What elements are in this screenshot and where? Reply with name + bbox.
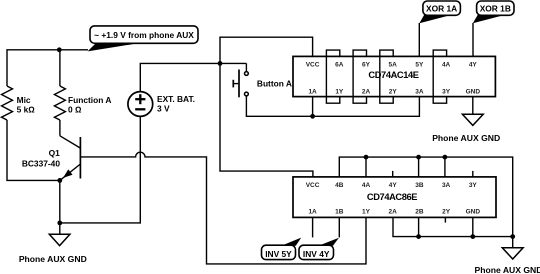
wire GND drop of CD74AC14E [472,97,474,115]
callout INV 5Y [262,238,302,260]
wire loop 6Y-2A [353,50,366,103]
node GND on lower bus [470,234,475,239]
svg-text:1A: 1A [308,208,317,215]
wire loop 4A-3Y [433,50,446,103]
node junction top-left at Function A [57,47,62,52]
svg-text:4A: 4A [362,182,371,189]
wire loop 6A-1Y [326,50,339,103]
svg-text:INV 5Y: INV 5Y [265,249,292,259]
wire loop 5A-2Y [380,50,393,103]
svg-text:1A: 1A [308,89,317,96]
svg-text:1B: 1B [335,208,344,215]
svg-text:~ +1.9 V from phone AUX: ~ +1.9 V from phone AUX [94,30,194,40]
wire GND drop of CD74AC86E [472,217,474,236]
wire 3A riser [444,157,446,177]
transistor Q1 BC337-40 [60,136,81,180]
wire Function A bottom to Q1 collector [59,120,61,136]
ground phone AUX GND left [49,234,70,245]
svg-text:0 Ω: 0 Ω [68,104,82,114]
node VCC branch on button rail [218,61,223,66]
svg-text:1Y: 1Y [362,208,371,215]
svg-text:4Y: 4Y [469,62,478,69]
pushbutton Button A [233,63,248,97]
wire battery top to button rail [140,63,246,91]
node 3A [443,155,448,160]
wire XOR 1A to pin 5Y [418,23,420,57]
op-amp U1 CD74AC14E body [293,56,495,96]
svg-text:INV 4Y: INV 4Y [303,249,330,259]
wire VCC riser to top rail [220,37,313,63]
resistor Function A zigzag [54,86,65,120]
wire button bottom bus to 1A and 3A [246,96,419,116]
wire battery bottom return to ground [60,116,141,222]
callout XOR 1B [473,1,514,23]
wire top-left horizontal net from phone AUX [7,50,88,86]
wire 1A drop to INV 5Y [312,217,314,237]
svg-text:Q1: Q1 [49,148,61,158]
svg-text:VCC: VCC [306,182,320,189]
svg-text:5A: 5A [389,62,398,69]
svg-text:5Y: 5Y [415,62,424,69]
node 3B [416,155,421,160]
wire Mic bottom to emitter node [7,120,60,180]
node 4A [364,155,369,160]
pin stub 3Y [472,171,474,177]
svg-text:CD74AC86E: CD74AC86E [367,192,417,202]
callout INV 4Y [299,238,339,260]
wire top bus of CD74AC86E [339,157,512,237]
svg-text:Phone AUX GND: Phone AUX GND [475,265,540,274]
svg-text:1Y: 1Y [335,89,344,96]
wire Function A top drop [59,50,61,86]
svg-text:GND: GND [466,89,481,96]
wire 2B drop [418,217,420,236]
pin stub 2Y [444,217,446,222]
callout XOR 1A [419,1,460,23]
resistor Mic 5k zigzag [2,86,13,120]
node emitter junction [57,178,62,183]
ground phone AUX GND bottom right [502,248,523,259]
svg-text:CD74AC14E: CD74AC14E [368,70,418,80]
svg-text:2A: 2A [389,208,398,215]
wire XOR 1B to pin 4Y [472,23,474,57]
ground phone AUX GND top right [462,114,483,125]
svg-text:4B: 4B [335,182,344,189]
node right bus junction [510,234,515,239]
svg-text:XOR 1B: XOR 1B [480,4,511,14]
node 1A junction [310,114,315,119]
svg-text:3Y: 3Y [442,89,451,96]
svg-text:Phone AUX GND: Phone AUX GND [432,133,500,143]
svg-text:6Y: 6Y [362,62,371,69]
svg-text:2Y: 2Y [389,89,398,96]
wire emitter node down to ground [59,180,61,234]
svg-text:3A: 3A [415,89,424,96]
wire VCC drop to CD74AC86E [220,63,313,176]
battery EXT BAT 3V [128,92,153,117]
svg-text:5 kΩ: 5 kΩ [17,104,36,114]
svg-text:VCC: VCC [306,62,320,69]
svg-text:3Y: 3Y [469,182,478,189]
svg-text:6A: 6A [335,62,344,69]
wire Q1 base with hop over battery wire [80,152,366,264]
svg-text:3 V: 3 V [157,104,170,114]
wire 3B riser [418,157,420,177]
node battery return junction [57,221,62,226]
svg-text:GND: GND [466,208,481,215]
svg-text:2A: 2A [362,89,371,96]
svg-text:2B: 2B [415,208,424,215]
svg-text:3A: 3A [442,182,451,189]
svg-text:Phone AUX GND: Phone AUX GND [19,254,87,264]
wire 1B drop to INV 4Y [338,217,340,237]
svg-text:XOR 1A: XOR 1A [426,4,457,14]
svg-text:BC337-40: BC337-40 [22,158,61,168]
wire lower bus 2A-2B-GND [393,217,513,236]
svg-text:4Y: 4Y [389,182,398,189]
svg-text:2Y: 2Y [442,208,451,215]
wire down to bottom-right ground [512,237,514,248]
svg-text:Button A: Button A [257,79,292,89]
svg-text:3B: 3B [415,182,424,189]
node 2B [416,234,421,239]
wire 4A riser [365,157,367,177]
svg-text:4A: 4A [442,62,451,69]
callout ~ +1.9 V from phone AUX [88,26,198,52]
wire 1A drop [312,97,314,117]
pin stub 4Y [392,171,394,177]
op-amp U2 CD74AC86E body [293,177,496,218]
